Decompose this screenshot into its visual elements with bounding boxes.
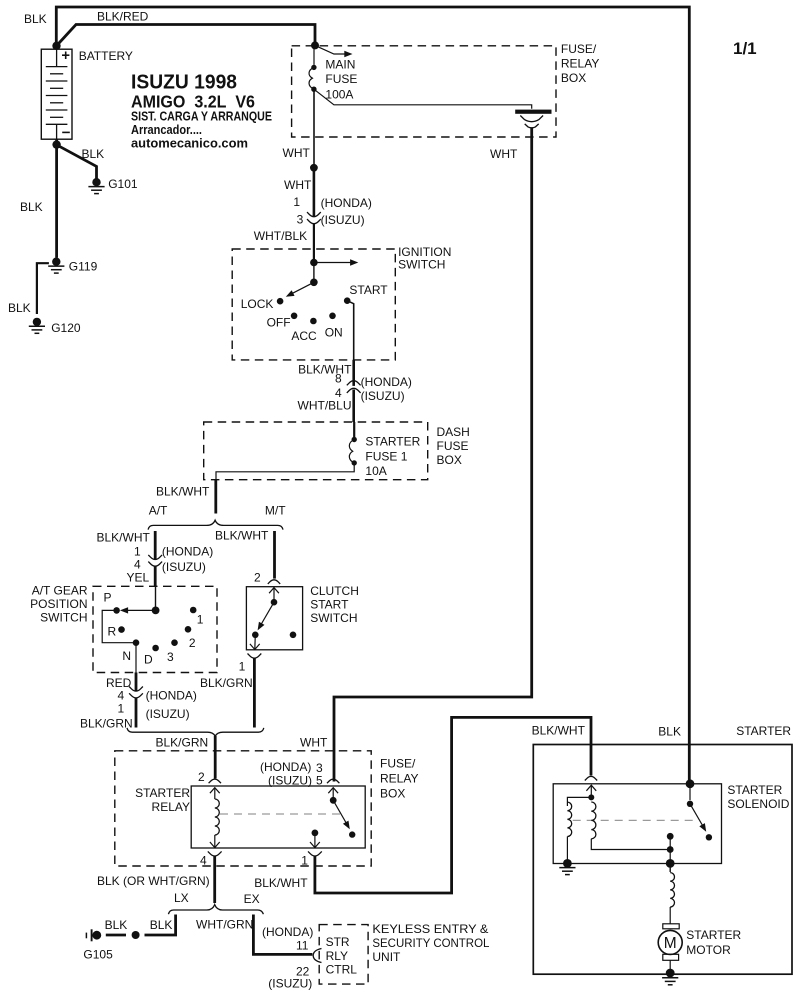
svg-text:BLK: BLK [105, 918, 128, 932]
svg-text:BLK: BLK [8, 301, 31, 315]
svg-text:G119: G119 [69, 260, 98, 274]
svg-text:BLK/WHT: BLK/WHT [97, 530, 151, 544]
svg-text:START: START [310, 598, 349, 612]
svg-text:1: 1 [118, 701, 125, 715]
svg-text:BLK/GRN: BLK/GRN [200, 676, 253, 690]
svg-text:SWITCH: SWITCH [40, 610, 87, 624]
svg-text:1: 1 [293, 195, 300, 209]
svg-text:(ISUZU): (ISUZU) [268, 774, 312, 788]
svg-text:(HONDA): (HONDA) [321, 196, 372, 210]
svg-text:WHT: WHT [283, 146, 311, 160]
svg-text:KEYLESS ENTRY &: KEYLESS ENTRY & [372, 922, 488, 936]
svg-text:FUSE: FUSE [325, 72, 357, 86]
svg-text:(HONDA): (HONDA) [162, 545, 213, 559]
svg-text:BLK: BLK [82, 147, 105, 161]
svg-text:LX: LX [174, 891, 189, 905]
svg-text:2: 2 [198, 770, 205, 784]
svg-text:100A: 100A [325, 87, 353, 101]
svg-text:DASH: DASH [437, 425, 470, 439]
svg-text:SECURITY CONTROL: SECURITY CONTROL [372, 936, 489, 950]
svg-text:RELAY: RELAY [152, 800, 190, 814]
svg-text:SOLENOID: SOLENOID [727, 797, 789, 811]
svg-text:BLK/WHT: BLK/WHT [254, 876, 308, 890]
svg-text:(ISUZU): (ISUZU) [268, 976, 312, 990]
svg-text:3: 3 [297, 212, 304, 226]
svg-text:STARTER: STARTER [736, 724, 791, 738]
svg-text:BLK/WHT: BLK/WHT [298, 362, 352, 376]
svg-text:STARTER: STARTER [727, 783, 782, 797]
svg-text:BLK/WHT: BLK/WHT [156, 485, 210, 499]
svg-text:(ISUZU): (ISUZU) [321, 213, 365, 227]
svg-text:BOX: BOX [380, 787, 405, 801]
svg-text:FUSE: FUSE [437, 439, 469, 453]
svg-text:BLK: BLK [150, 918, 173, 932]
svg-text:A/T: A/T [149, 504, 168, 518]
svg-text:RELAY: RELAY [561, 56, 599, 70]
svg-text:1: 1 [134, 545, 141, 559]
svg-text:RLY: RLY [326, 949, 348, 963]
svg-text:SWITCH: SWITCH [310, 611, 357, 625]
svg-text:automecanico.com: automecanico.com [131, 137, 248, 151]
svg-text:CLUTCH: CLUTCH [310, 584, 359, 598]
svg-text:MAIN: MAIN [325, 57, 355, 71]
svg-text:ISUZU 1998: ISUZU 1998 [131, 71, 237, 94]
svg-text:Arrancador....: Arrancador.... [131, 123, 202, 137]
svg-text:8: 8 [335, 372, 342, 386]
svg-text:FUSE/: FUSE/ [561, 42, 597, 56]
svg-text:WHT: WHT [490, 147, 518, 161]
svg-text:RELAY: RELAY [380, 772, 418, 786]
svg-text:BLK: BLK [24, 12, 47, 26]
svg-text:3: 3 [167, 650, 174, 664]
svg-text:BOX: BOX [437, 453, 462, 467]
svg-text:(ISUZU): (ISUZU) [146, 707, 190, 721]
svg-text:WHT/GRN: WHT/GRN [196, 918, 253, 932]
svg-text:4: 4 [118, 688, 125, 702]
svg-text:(ISUZU): (ISUZU) [162, 560, 206, 574]
svg-text:EX: EX [244, 892, 260, 906]
svg-text:R: R [108, 625, 117, 639]
svg-text:1/1: 1/1 [733, 39, 757, 58]
svg-text:N: N [122, 649, 131, 663]
svg-text:5: 5 [316, 774, 323, 788]
svg-text:STARTER: STARTER [365, 435, 420, 449]
svg-text:(HONDA): (HONDA) [146, 688, 197, 702]
svg-text:ON: ON [325, 325, 343, 339]
svg-text:BLK/RED: BLK/RED [97, 9, 149, 23]
svg-text:G105: G105 [83, 948, 113, 962]
svg-text:1: 1 [197, 612, 204, 626]
svg-text:M/T: M/T [265, 504, 286, 518]
svg-text:LOCK: LOCK [241, 297, 274, 311]
svg-text:SWITCH: SWITCH [398, 257, 445, 271]
svg-text:4: 4 [200, 854, 207, 868]
svg-text:10A: 10A [365, 464, 386, 478]
svg-text:STARTER: STARTER [686, 928, 741, 942]
svg-text:P: P [104, 591, 112, 605]
svg-text:WHT: WHT [284, 178, 312, 192]
svg-text:YEL: YEL [127, 570, 150, 584]
svg-text:2: 2 [254, 570, 261, 584]
svg-text:FUSE 1: FUSE 1 [365, 449, 407, 463]
svg-text:WHT/BLK: WHT/BLK [254, 229, 307, 243]
svg-text:OFF: OFF [267, 316, 291, 330]
svg-text:BLK: BLK [20, 200, 43, 214]
svg-text:WHT: WHT [300, 736, 328, 750]
svg-text:ACC: ACC [291, 329, 317, 343]
svg-text:BATTERY: BATTERY [79, 49, 133, 63]
svg-text:MOTOR: MOTOR [686, 943, 731, 957]
svg-text:BLK/WHT: BLK/WHT [215, 528, 269, 542]
svg-text:BLK (OR WHT/GRN): BLK (OR WHT/GRN) [97, 874, 210, 888]
svg-text:BLK: BLK [658, 724, 681, 738]
svg-text:1: 1 [301, 854, 308, 868]
svg-text:(HONDA): (HONDA) [262, 925, 313, 939]
svg-text:1: 1 [239, 660, 246, 674]
svg-text:G120: G120 [51, 321, 81, 335]
svg-text:4: 4 [134, 557, 141, 571]
svg-text:STR: STR [326, 935, 350, 949]
svg-text:BLK/GRN: BLK/GRN [80, 716, 133, 730]
svg-text:11: 11 [296, 939, 309, 953]
svg-text:BOX: BOX [561, 71, 586, 85]
svg-text:WHT/BLU: WHT/BLU [298, 398, 352, 412]
svg-text:FUSE/: FUSE/ [380, 757, 416, 771]
svg-text:(ISUZU): (ISUZU) [361, 389, 405, 403]
svg-text:2: 2 [189, 636, 196, 650]
svg-text:UNIT: UNIT [372, 950, 401, 964]
svg-text:(HONDA): (HONDA) [260, 760, 311, 774]
svg-text:D: D [144, 653, 153, 667]
svg-text:POSITION: POSITION [30, 597, 87, 611]
svg-text:STARTER: STARTER [135, 786, 190, 800]
svg-text:A/T GEAR: A/T GEAR [32, 584, 88, 598]
svg-text:BLK/GRN: BLK/GRN [156, 736, 209, 750]
svg-text:START: START [349, 283, 388, 297]
svg-text:SIST. CARGA Y ARRANQUE: SIST. CARGA Y ARRANQUE [131, 109, 272, 123]
svg-text:BLK/WHT: BLK/WHT [532, 724, 586, 738]
svg-text:(HONDA): (HONDA) [361, 375, 412, 389]
svg-text:G101: G101 [108, 177, 138, 191]
svg-text:CTRL: CTRL [326, 962, 358, 976]
svg-text:M: M [664, 935, 677, 952]
